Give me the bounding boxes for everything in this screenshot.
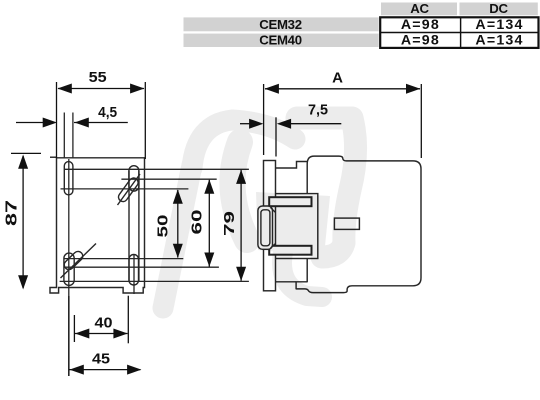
- watermark logo: [163, 118, 356, 308]
- svg-text:DC: DC: [489, 1, 508, 16]
- dimension 87: [11, 153, 57, 288]
- dimension 60: [208, 180, 210, 267]
- svg-text:55: 55: [89, 69, 107, 86]
- corner and upper bar: [192, 120, 295, 168]
- reference line 60 top: [121, 178, 216, 180]
- mounting slot top-left: [64, 162, 73, 195]
- svg-text:40: 40: [95, 315, 113, 332]
- clip-to-plate chamfers: [271, 208, 276, 249]
- left slot centerline: [68, 159, 70, 376]
- center swath: [256, 192, 330, 256]
- svg-text:CEM40: CEM40: [259, 33, 301, 48]
- mounting slot top-right: [117, 166, 140, 205]
- table: header cell DC: [460, 1, 538, 16]
- table: header cell AC: [381, 1, 457, 16]
- front view body outline with feet: [50, 158, 145, 293]
- right slot channel lines: [129, 171, 139, 282]
- top step between plate and body: [276, 162, 308, 169]
- bottom flange bar: [269, 246, 311, 255]
- side view main body with foot: [296, 156, 421, 293]
- middle block (magnet housing): [268, 194, 318, 259]
- tilted alternate slot: [117, 176, 140, 203]
- slash: [118, 174, 141, 205]
- dimension A: [264, 84, 422, 158]
- bottom-left step line: [276, 281, 297, 283]
- svg-text:A=134: A=134: [475, 33, 523, 49]
- svg-text:CEM32: CEM32: [259, 17, 301, 32]
- svg-text:A=98: A=98: [401, 17, 440, 33]
- label window: [334, 218, 359, 229]
- DIN rail clip: [258, 206, 273, 249]
- dimension 79: [240, 170, 242, 281]
- right top bar with descender: [297, 118, 356, 257]
- svg-text:A=134: A=134: [475, 17, 523, 33]
- bottom-right slot centerline: [133, 254, 135, 294]
- dimension 40: [74, 296, 128, 344]
- mounting slot bottom-right: [129, 255, 139, 286]
- reference line 60 bottom: [64, 266, 219, 268]
- svg-text:A=98: A=98: [401, 33, 440, 49]
- svg-text:87: 87: [4, 200, 21, 226]
- table: row label bar CEM32: [184, 17, 379, 32]
- slot edge extension lines above (4,5 ticks): [64, 113, 73, 159]
- table: row label bar CEM40: [184, 33, 379, 48]
- svg-text:A: A: [332, 70, 343, 87]
- reference line 79 top: [64, 168, 249, 170]
- reference line 79 bottom: [60, 280, 249, 282]
- top flange bar: [269, 197, 311, 206]
- dimension 45: [69, 296, 141, 376]
- dimension 4,5: [16, 122, 128, 124]
- bottom hook: [282, 252, 322, 297]
- svg-text:4,5: 4,5: [98, 104, 117, 121]
- svg-text:45: 45: [92, 351, 110, 368]
- left leg: [163, 165, 192, 308]
- reference line 50 bottom: [64, 258, 183, 260]
- svg-text:AC: AC: [410, 1, 429, 16]
- table: data cell grid: [380, 17, 538, 48]
- dimension 55: [57, 82, 146, 159]
- reference line 50 top: [61, 188, 189, 190]
- mounting slot bottom-left: [61, 244, 97, 286]
- mounting plate: [264, 161, 276, 291]
- middle arc band: [232, 142, 247, 240]
- dimension 50: [177, 190, 179, 258]
- dimension 7,5: [240, 117, 341, 156]
